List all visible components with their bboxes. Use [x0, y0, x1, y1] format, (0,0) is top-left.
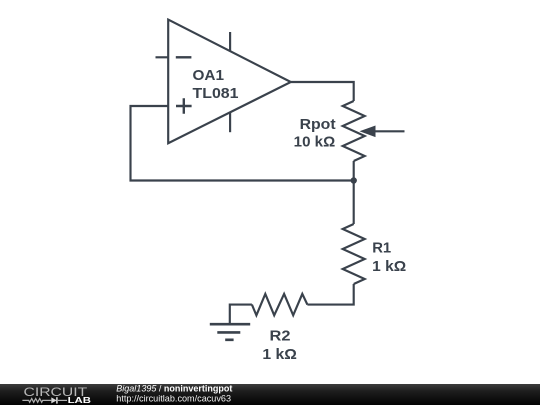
svg-text:OA1: OA1	[193, 67, 225, 84]
feedback wire from node to OA1 non-inverting input	[131, 106, 354, 181]
svg-text:1 kΩ: 1 kΩ	[262, 346, 297, 363]
op-amp OA1 triangle	[168, 20, 291, 144]
svg-text:10 kΩ: 10 kΩ	[294, 133, 336, 150]
resistor R2 body	[252, 294, 308, 315]
CircuitLab logo resistor-diode symbol	[22, 397, 67, 403]
svg-text:http://circuitlab.com/cacuv63: http://circuitlab.com/cacuv63	[116, 393, 231, 403]
ground symbol	[210, 324, 250, 340]
wire from OA1 output to Rpot top	[291, 82, 354, 101]
wire from R2 left to ground	[230, 305, 252, 324]
wire from R1 bottom to R2 right	[307, 284, 353, 305]
node junction dot	[351, 177, 357, 183]
footer bar	[0, 384, 540, 405]
svg-text:R2: R2	[270, 327, 291, 344]
svg-text:R1: R1	[372, 240, 391, 257]
op-amp OA1 positive supply pin stub	[229, 32, 231, 51]
op-amp OA1 inverting input pin stub	[156, 56, 169, 58]
svg-text:Rpot: Rpot	[300, 116, 336, 133]
potentiometer Rpot body	[343, 101, 365, 161]
potentiometer Rpot wiper arrow	[360, 126, 405, 138]
op-amp OA1 negative supply pin stub	[229, 112, 231, 132]
op-amp OA1 plus sign	[176, 98, 192, 114]
svg-text:1 kΩ: 1 kΩ	[372, 258, 406, 275]
svg-text:Bigal1395 / noninvertingpot: Bigal1395 / noninvertingpot	[116, 383, 232, 393]
resistor R1 body	[343, 224, 365, 284]
svg-text:TL081: TL081	[193, 85, 239, 102]
svg-text:LAB: LAB	[68, 395, 91, 405]
op-amp OA1 minus sign	[176, 56, 192, 58]
wire from Rpot bottom through node to R1 top	[353, 161, 355, 224]
